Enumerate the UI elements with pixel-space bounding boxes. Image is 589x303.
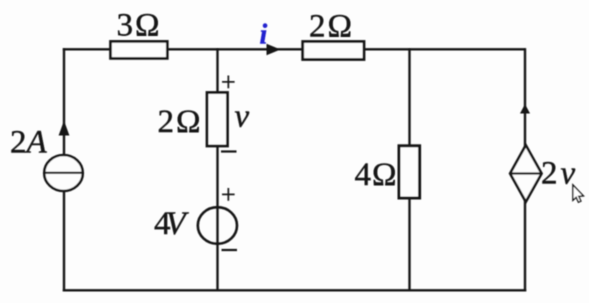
svg-text:2A: 2A (10, 125, 48, 161)
svg-text:+: + (221, 68, 236, 97)
mouse cursor (573, 185, 584, 202)
resistor R2 2ohm top (303, 9, 364, 60)
current source I1 2A (10, 121, 83, 192)
wire bottom (63, 289, 526, 291)
wire middle branch (216, 48, 218, 291)
svg-text:v: v (235, 99, 250, 135)
svg-text:+: + (221, 180, 236, 209)
polarity minus v (221, 150, 237, 152)
svg-text:4V: 4V (154, 206, 190, 242)
wire top (63, 48, 525, 50)
polarity minus 4V (222, 249, 238, 251)
resistor R4 4ohm (355, 146, 420, 198)
resistor R3 2ohm middle (158, 93, 228, 147)
svg-text:4Ω: 4Ω (355, 157, 398, 193)
svg-text:2v: 2v (541, 156, 576, 192)
voltage source V1 4V (154, 206, 237, 244)
resistor R1 3ohm (111, 8, 168, 59)
svg-text:i: i (260, 20, 268, 51)
wire 4ohm branch (408, 48, 410, 291)
dependent source 2v (510, 104, 575, 202)
wire left upper (63, 48, 65, 155)
current arrow i (260, 20, 281, 56)
svg-text:2Ω: 2Ω (158, 104, 203, 140)
wire right upper (524, 48, 526, 146)
wire right lower (524, 201, 526, 292)
svg-text:3Ω: 3Ω (117, 8, 162, 44)
svg-text:2Ω: 2Ω (309, 9, 354, 45)
wire left lower (63, 191, 65, 292)
